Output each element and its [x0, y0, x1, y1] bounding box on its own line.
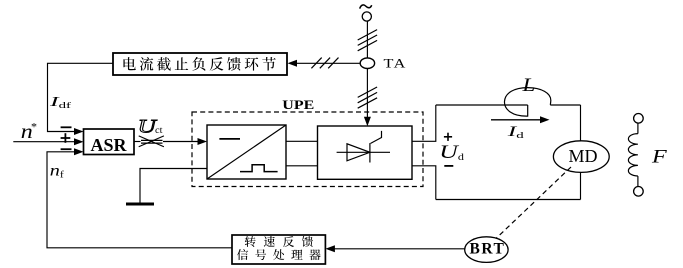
arrowhead n* into ASR [74, 138, 84, 145]
label n* [21, 120, 33, 143]
arrowhead I_df into ASR [74, 128, 84, 135]
wire: speed feedback n_f [47, 152, 232, 248]
label 转速反馈 [245, 236, 313, 247]
label 信号处理器 [237, 249, 321, 260]
field winding coil [628, 134, 638, 176]
tachometer BRT [465, 237, 508, 263]
mechanical coupling MD-BRT (dashed) [497, 167, 572, 238]
block: thyristor rectifier U2 [318, 126, 413, 179]
svg-text:ASR: ASR [90, 135, 127, 155]
trigger pulse symbol [240, 165, 278, 172]
wire: loop right upper [580, 105, 582, 141]
arrowhead into rectifier [364, 117, 371, 127]
svg-text:L: L [521, 74, 535, 95]
wire: loop top left segment [436, 104, 528, 106]
inductor L [504, 88, 550, 117]
UPE dashed enclosure [192, 112, 423, 187]
arrow I_d [491, 119, 541, 121]
label F [651, 146, 668, 167]
label + (U_d) [444, 136, 452, 138]
wire: loop right lower [580, 172, 582, 199]
svg-text:F: F [651, 146, 668, 167]
label L [521, 74, 535, 95]
wire: trigger to rectifier (lower) [286, 165, 318, 167]
sign minus (n_f) [61, 148, 72, 150]
wire: loop top right segment [550, 104, 580, 106]
op-amp block ASR [84, 129, 135, 155]
wire: field top lead [637, 123, 639, 134]
wire: field bottom lead [637, 176, 639, 186]
ground [126, 203, 154, 206]
block: trigger unit U1 [207, 125, 286, 179]
sign plus (n*) [61, 137, 71, 139]
wire: rectifier output positive [412, 105, 436, 141]
arrowhead n_f into ASR [74, 148, 84, 155]
motor MD [553, 141, 609, 173]
AC source tilde [360, 5, 372, 9]
block: current cutoff negative feedback [113, 53, 287, 75]
sign minus (I_df) [61, 126, 72, 128]
svg-text:ct: ct [155, 126, 163, 136]
wire: rectifier output negative [412, 166, 436, 200]
svg-text:TA: TA [384, 57, 407, 71]
wire: cutoff block output to ASR (I_df) [48, 63, 114, 131]
block: speed feedback signal processor [232, 235, 325, 264]
label I_d [507, 124, 524, 140]
AC source terminal circle [362, 12, 371, 21]
field winding terminal top [634, 114, 644, 124]
trigger block diagonal [207, 125, 286, 179]
current transformer TA [360, 58, 374, 69]
wire: trigger to rectifier (upper) [286, 140, 318, 142]
crossed-wires symbol on U_ct [141, 139, 163, 141]
label minus (U_d) [444, 165, 453, 167]
arrowhead into trigger unit [198, 138, 208, 145]
wire: ASR output to trigger [134, 141, 141, 143]
label U_ct [138, 116, 158, 137]
wire: three-phase supply vertical (lower) [366, 69, 368, 118]
wire: TA to current-cutoff block [296, 62, 360, 64]
svg-text:BRT: BRT [469, 241, 505, 258]
wire: loop bottom [436, 199, 581, 201]
svg-text:UPE: UPE [282, 98, 314, 112]
arrowhead into current-cutoff block [288, 60, 298, 67]
label n_f [50, 162, 65, 181]
label 电流截止负反馈环节 [123, 57, 275, 71]
label TA [384, 57, 407, 71]
wire: three-phase supply vertical (upper) [366, 21, 368, 58]
hatch marks on TA signal wire [311, 58, 321, 69]
wire: BRT to speed processor [334, 248, 465, 250]
svg-text:*: * [31, 120, 37, 134]
label I_df [49, 93, 71, 110]
three-phase hatch marks lower [358, 87, 377, 97]
arrowhead into speed processor [325, 245, 335, 252]
thyristor symbol [337, 151, 390, 153]
wire: trigger unit to ground [140, 169, 207, 205]
svg-text:MD: MD [568, 146, 597, 166]
three-phase hatch marks upper [358, 30, 377, 40]
wire: speed reference n* [13, 141, 76, 143]
label U_d [439, 141, 464, 163]
label UPE [282, 98, 314, 112]
trigger DC level symbol [219, 138, 240, 140]
field winding terminal bottom [634, 187, 644, 197]
